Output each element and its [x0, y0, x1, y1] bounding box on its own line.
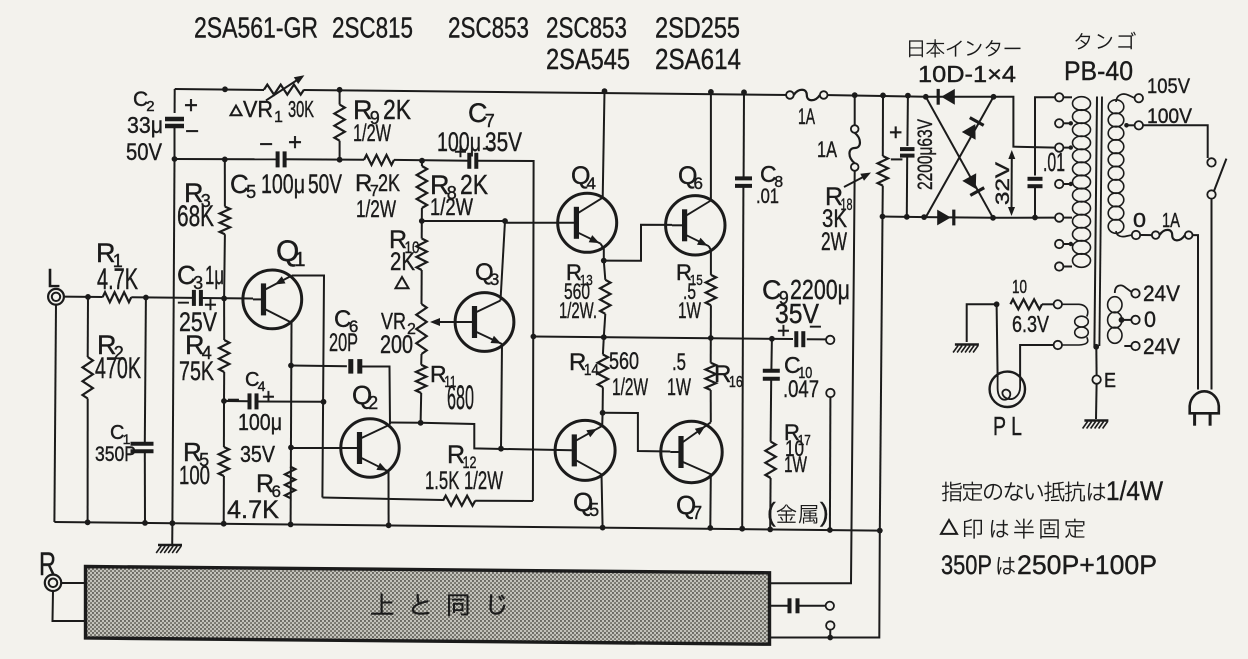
rheostat VR1 30K: [264, 75, 304, 100]
capacitor R channel output: [790, 598, 798, 613]
label + of 2200u63V: [889, 119, 902, 145]
junction R2/bottom rail: [85, 519, 91, 525]
label R16: [714, 361, 743, 391]
junction C8/bottom rail: [739, 526, 745, 532]
transistor Q6 2SD255: [666, 196, 725, 255]
node E terminal: [1092, 375, 1100, 383]
switch mains: [1207, 158, 1226, 199]
label + of C5: [288, 129, 302, 156]
svg-text:−: −: [890, 146, 903, 172]
wire terminal lower down to bottom rail: [829, 397, 832, 530]
wire R4 to C4 junction: [223, 372, 225, 401]
diode D2 bottom edge: [937, 210, 954, 226]
label + of C4: [262, 384, 275, 409]
wire R jack to box: [61, 582, 85, 584]
resistor R9: [334, 105, 344, 141]
label + of C9: [777, 318, 790, 343]
svg-text:E: E: [1104, 370, 1116, 392]
label R7 2K: [355, 170, 400, 200]
plug AC mains: [1190, 391, 1219, 425]
junction R13/mid rail: [601, 334, 607, 340]
junction R output/bottom wire: [827, 635, 833, 641]
capacitor C8 .01: [735, 178, 752, 186]
svg-text:2SA614: 2SA614: [655, 44, 741, 76]
label R3: [184, 178, 211, 211]
svg-text:5: 5: [589, 500, 599, 520]
wire VR2 wiper to Q3 base: [430, 318, 475, 326]
wire R18 line down to bottom area: [880, 217, 883, 531]
svg-text:L: L: [47, 263, 60, 293]
svg-text:350P: 350P: [95, 443, 136, 466]
label 20P of C6: [329, 329, 358, 357]
wire 10ohm to 6.3V top terminal: [1042, 303, 1054, 305]
wire cap to R output terminal: [798, 605, 826, 607]
label PL: [993, 411, 1022, 441]
svg-text:30K: 30K: [288, 96, 314, 122]
label PB-40: [1064, 56, 1133, 86]
label tango brand: [1075, 32, 1136, 50]
label 1W of R17: [784, 452, 807, 477]
node primary terminal 3: [1055, 143, 1072, 151]
label Q3: [475, 259, 499, 289]
capacitor C6 20P: [351, 359, 360, 374]
diode D4 on TL-BR diagonal: [962, 173, 984, 195]
junction C4/Q1-emitter-line: [321, 399, 327, 405]
resistor R10 2K: [417, 239, 427, 271]
svg-text:6: 6: [694, 174, 703, 193]
wire 24V top lead: [1115, 285, 1132, 293]
label R11: [430, 361, 456, 391]
label R1: [96, 238, 123, 271]
node primary terminal 6: [1055, 240, 1072, 248]
wire bridge top edge: [926, 96, 994, 98]
label - of C7: [482, 136, 495, 161]
svg-text:1/2W: 1/2W: [430, 194, 473, 221]
label 2SA614 type of Q7: [655, 44, 741, 76]
wire C10 top: [770, 339, 773, 369]
junction Q4emitter/R13: [601, 258, 607, 264]
label 10 of pilot resistor: [1012, 277, 1027, 297]
resistor R14 560: [598, 355, 608, 388]
wire R11 bottom: [420, 393, 423, 423]
transistor Q4 2SC853: [505, 193, 617, 252]
wire bridge diagonal TL-BR: [926, 97, 993, 218]
wire jack ground down to bottom rail: [54, 304, 56, 522]
wire R10 to VR2: [421, 270, 423, 304]
label R13: [566, 260, 593, 289]
wire R8 bottom: [421, 208, 423, 221]
junction 2200u/dc minus wire: [904, 214, 910, 220]
junction bridge top-right: [991, 94, 997, 100]
svg-text:24V: 24V: [1143, 281, 1180, 306]
transformer core: [1094, 97, 1102, 347]
label - of 2200u63V: [890, 146, 903, 172]
svg-text:10: 10: [1012, 277, 1027, 297]
label 470K value of R2: [95, 352, 141, 385]
resistor R2: [83, 357, 93, 399]
label R: [39, 546, 56, 582]
svg-text:200: 200: [380, 331, 413, 359]
svg-text:2SC815: 2SC815: [332, 13, 413, 45]
label - of C3: [177, 290, 190, 315]
wire left vertical rail2 to bottom rail: [172, 159, 174, 523]
capacitor C10 .047: [763, 371, 780, 379]
resistor R6 4.7K: [285, 467, 295, 499]
wire Q4 emitter down to junction: [601, 244, 604, 261]
node 24V center terminal: [1119, 316, 1140, 324]
svg-text:1W: 1W: [667, 374, 691, 401]
label note2 triangle means semi-fixed: [941, 519, 1085, 539]
label 1W of R15: [678, 298, 701, 323]
wire R14 top: [602, 337, 605, 354]
label R10: [389, 226, 420, 257]
junction top rail/Q4 collector line: [602, 88, 608, 94]
junction R18line/bottom rail: [877, 528, 883, 534]
label nihon inter brand: [909, 39, 1020, 57]
transistor Q3 2SC853: [455, 293, 514, 352]
label Q1: [276, 235, 306, 271]
wire 2200u cap top: [906, 96, 909, 146]
label 560 of R14: [609, 348, 639, 375]
svg-text:3: 3: [193, 273, 203, 293]
label R12: [447, 441, 477, 472]
svg-text:1μ: 1μ: [205, 260, 224, 290]
label Q2: [352, 380, 378, 413]
wire Q6 collector up: [710, 92, 712, 201]
wire R16 bottom to Q7 emitter: [710, 390, 712, 422]
svg-text:2K: 2K: [378, 170, 400, 197]
wire C6 right to Q2 collector: [358, 367, 390, 425]
wire R18 line to R-channel bottom: [770, 531, 880, 638]
label .5 of R16: [672, 349, 686, 376]
wire R3 bottom to input line: [223, 234, 226, 298]
svg-text:1W: 1W: [678, 298, 701, 323]
transistor Q7 2SA614: [661, 421, 722, 482]
wire R9 bottom: [339, 141, 341, 160]
junction Q3coll/Q4base line: [502, 218, 508, 224]
label kinzoku metal film note: [767, 497, 829, 527]
junction primary tap dots: [1069, 121, 1073, 246]
svg-text:.047: .047: [783, 376, 819, 403]
label .01 of C8: [756, 185, 779, 208]
label 680 of R11: [447, 379, 474, 417]
wire staircase junction to Q7 base: [603, 413, 671, 452]
label C8: [760, 161, 783, 191]
junction R9/rail2: [337, 157, 343, 163]
svg-text:100μ: 100μ: [261, 169, 305, 199]
wire 6.3V bottom to lamp: [1020, 345, 1054, 377]
junction R6/bottom rail: [288, 522, 294, 528]
ground symbol E: [1083, 421, 1109, 429]
wire input line R1 to C3: [131, 296, 192, 299]
wire staircase to Q5 base line: [421, 423, 572, 451]
label R8 2K: [430, 169, 488, 203]
label 1A of F1: [798, 104, 815, 129]
label 100u 35V of C7: [437, 127, 522, 157]
wire Q7 collector down: [709, 474, 712, 528]
svg-text:100μ: 100μ: [238, 409, 282, 435]
node primary terminal 4: [1055, 180, 1072, 188]
label R18 with arrow: [825, 173, 871, 215]
wire R18 bottom: [882, 186, 884, 217]
wire C2 top from top rail: [174, 89, 176, 113]
svg-text:0: 0: [1144, 307, 1156, 332]
junction R15/mid rail: [708, 335, 714, 341]
resistor 10 ohm pilot: [1010, 299, 1042, 309]
svg-text:+: +: [288, 129, 302, 156]
label 2K of R10: [390, 248, 415, 276]
svg-text:250P+100P: 250P+100P: [1017, 550, 1157, 580]
svg-text:−: −: [259, 131, 273, 158]
junction top rail/2200u cap: [905, 93, 911, 99]
junction Q1coll/C6: [288, 363, 294, 369]
wire R14 bottom: [602, 387, 604, 413]
junction Q7coll/bottom rail: [707, 525, 713, 531]
svg-text:35V: 35V: [240, 441, 276, 467]
svg-text:1/2W: 1/2W: [612, 374, 648, 401]
junction top rail/F2: [852, 92, 858, 98]
label Q7: [676, 490, 702, 523]
wire R9 top: [339, 90, 341, 105]
wire input line C3 to Q1 base: [203, 297, 253, 300]
wire Q2 emitter down: [388, 472, 390, 526]
label 4.7K of R6: [227, 496, 279, 524]
label E: [1104, 370, 1116, 392]
wire C4 junction to R5: [223, 401, 225, 447]
node R output terminal lower: [826, 621, 834, 629]
label R17: [784, 420, 811, 449]
wire winding top terminal bracket: [1035, 97, 1056, 175]
wire R jack ground to box: [53, 591, 86, 621]
wire R16 top: [710, 338, 712, 363]
capacitor C2 33u 50V: [165, 119, 184, 126]
wire 2200u cap bottom: [906, 156, 908, 217]
ground symbol main: [156, 523, 182, 553]
label 100V: [1147, 105, 1192, 128]
svg-text:1: 1: [294, 249, 305, 271]
svg-text:350P: 350P: [941, 550, 992, 580]
label 68K of R3: [177, 200, 214, 233]
junction bridge bottom-right: [990, 215, 996, 221]
junction R14/Q5emitter: [600, 410, 606, 416]
svg-text:0: 0: [1133, 210, 1146, 232]
junction input/C1: [143, 295, 149, 301]
svg-text:1W: 1W: [784, 452, 807, 477]
diode D3 on BL-TR diagonal: [962, 118, 984, 140]
junction top rail/Q6 collector line: [708, 89, 714, 95]
fuse F3 1A mains: [1152, 230, 1193, 241]
label note1 resistors 1/4W unless specified: [942, 476, 1164, 506]
node secondary 0 terminal: [1132, 231, 1140, 239]
label + of C3: [204, 292, 217, 317]
junction Q2emitter/bottom rail: [386, 522, 392, 528]
wire switch to plug right wire: [1211, 199, 1213, 390]
label C4: [245, 369, 266, 394]
label 100 of R5: [179, 460, 210, 490]
svg-text:1.5K 1/2W: 1.5K 1/2W: [425, 467, 503, 495]
label ue to onaji (same as above): [371, 594, 505, 616]
node R output terminal upper: [826, 602, 834, 610]
label L: [47, 263, 60, 293]
junction top rail/R18: [880, 93, 886, 99]
label 1A of F2: [817, 137, 837, 162]
resistor R15 .5 1W: [706, 275, 716, 305]
wire dc minus node to bridge bottom-left: [883, 216, 926, 219]
node 6.3V bottom terminal: [1054, 341, 1062, 349]
capacitor C5 100u 50V electrolytic: [278, 151, 285, 167]
junction Q5coll/bottom rail: [600, 525, 606, 531]
junction R4R5/C4: [221, 398, 227, 404]
label C2: [133, 88, 155, 115]
resistor R11 680: [416, 365, 426, 393]
resistor R7 2K on rail2: [364, 155, 394, 165]
label R4: [185, 330, 212, 363]
label 75K of R4: [179, 356, 214, 386]
label .01 of winding cap: [1043, 147, 1065, 177]
svg-text:20P: 20P: [329, 329, 358, 357]
label 1.5K 1/2W of R12: [425, 467, 503, 495]
wire lamp left lead: [997, 304, 998, 377]
label triangle of VR2: [396, 277, 409, 288]
node primary terminal 1: [1055, 93, 1072, 101]
junction Q3emitter/Q5base line: [498, 446, 504, 452]
wire R15 bottom: [710, 305, 712, 338]
label R2: [97, 330, 124, 363]
label 0 1A: [1133, 210, 1180, 232]
label 105V: [1147, 75, 1190, 98]
svg-text:2SA561-GR: 2SA561-GR: [194, 13, 318, 45]
wire R13 bottom: [604, 314, 606, 337]
wire negative feed rail segment C (R7 to C7): [394, 159, 469, 162]
svg-text:2SC853: 2SC853: [546, 13, 627, 45]
wire C8 top: [743, 92, 745, 178]
node output terminal upper: [826, 336, 834, 344]
junction mid rail/C9C10: [769, 336, 775, 342]
svg-text:10D-1×4: 10D-1×4: [918, 61, 1016, 87]
node primary terminal 5: [1055, 213, 1072, 221]
label 32V with arrows: [993, 150, 1015, 216]
svg-text:68K: 68K: [177, 200, 214, 233]
svg-text:16: 16: [729, 374, 743, 391]
wire R17 bottom: [769, 478, 771, 529]
junction top rail/C8: [741, 89, 747, 95]
node primary terminal 7: [1055, 262, 1072, 270]
junction R17/bottom rail: [767, 527, 773, 533]
label 2SC815 type of Q2: [332, 13, 413, 45]
svg-text:24V: 24V: [1143, 334, 1180, 359]
wire R18 top: [882, 95, 884, 156]
svg-text:.01: .01: [756, 185, 779, 208]
wire C8 bottom crossing mid rail to ground rail: [742, 186, 743, 529]
junction bridge top-left: [923, 94, 929, 100]
svg-text:+: +: [777, 318, 790, 343]
coil transformer right main winding: [1108, 94, 1135, 237]
label 560 of R13: [564, 279, 590, 304]
coil 6.3V winding: [1062, 304, 1088, 345]
wire R2 top: [87, 297, 89, 357]
wire top supply rail middle section: [304, 90, 790, 95]
label 2W of R18: [821, 228, 847, 256]
label 2SD255 type of Q6: [655, 13, 740, 45]
label 24V top: [1143, 281, 1180, 306]
svg-text:100: 100: [179, 460, 210, 490]
wire junction to Q6 base staircase: [604, 225, 672, 261]
svg-text:2200μ63V: 2200μ63V: [914, 119, 937, 190]
svg-text:1/2W.: 1/2W.: [559, 298, 597, 323]
label C10: [784, 352, 812, 382]
label 35V of C9: [775, 298, 819, 329]
node L input jack: [48, 289, 64, 305]
label 10D-1x4 type: [918, 61, 1016, 87]
svg-text:(: (: [767, 497, 776, 527]
wire F2 line down to R-channel: [770, 171, 855, 583]
svg-text:100μ: 100μ: [437, 127, 481, 157]
lamp PL pilot: [990, 372, 1025, 407]
coil transformer 24V winding: [1108, 297, 1122, 344]
label C3 1u: [177, 260, 224, 293]
wire C4 to emitter line: [257, 401, 324, 403]
node R input jack: [45, 575, 61, 591]
wire bridge diagonal BL-TR: [926, 97, 994, 217]
wire C10 to R17: [770, 379, 773, 442]
wire Q5 emitter up to R14 junction: [601, 413, 603, 426]
wire 0 term to fuse: [1140, 234, 1152, 236]
diode D1 top edge: [938, 89, 955, 105]
svg-text:7: 7: [692, 503, 702, 523]
svg-text:1A: 1A: [798, 104, 815, 129]
svg-text:6.3V: 6.3V: [1012, 311, 1050, 337]
svg-text:35V: 35V: [485, 127, 522, 157]
label 1/2W of R13: [559, 298, 597, 323]
label 2SA545 type: [546, 44, 630, 76]
label 25V of C3: [179, 307, 217, 337]
junction 100V tap on winding: [1124, 123, 1129, 128]
label C1: [110, 422, 131, 447]
svg-text:105V: 105V: [1147, 75, 1190, 98]
fuse F1 1A: [786, 90, 827, 101]
wire R3 top: [224, 159, 226, 206]
wire Q3 collector up: [501, 221, 506, 301]
resistor R13 560: [600, 280, 610, 314]
wire bottom ground rail: [54, 522, 879, 531]
svg-text:1A: 1A: [817, 137, 837, 162]
wire R12 right segment: [475, 500, 533, 502]
label 1/2W of R9: [353, 120, 391, 147]
junction rail2 / R3-line: [222, 157, 228, 163]
junction input/R3R4: [221, 296, 227, 302]
label R9 2K: [353, 94, 411, 128]
svg-text:−: −: [809, 314, 822, 339]
label 2SA561-GR type of Q1: [194, 13, 318, 45]
label R14: [569, 349, 599, 379]
wire R4 top: [223, 298, 225, 340]
wire negative feed rail segment D + drop to mid rail: [476, 161, 533, 501]
resistor R5 100: [219, 447, 229, 476]
capacitor 2200u63V: [900, 149, 915, 156]
label 350P value of C1: [95, 443, 136, 466]
wire R8 junction to Q4 base: [422, 220, 505, 222]
label C7: [468, 98, 495, 131]
transistor Q2 2SC815: [291, 419, 399, 477]
label 50V value of C2: [126, 139, 162, 166]
wire top supply rail right section: [824, 95, 926, 97]
wire pilot ground branch: [967, 304, 997, 342]
junction top rail / R9: [337, 87, 343, 93]
label 100u of C4: [238, 409, 282, 435]
svg-text:.5: .5: [672, 349, 686, 376]
junction terminal-line/bottom rail: [827, 527, 833, 533]
svg-text:2K: 2K: [390, 248, 415, 276]
